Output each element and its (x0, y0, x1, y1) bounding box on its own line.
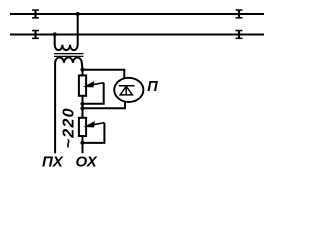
terminal tick left on L2 (32, 30, 39, 39)
potentiometer R1 body (79, 75, 86, 95)
relay U1 diode symbol (119, 86, 135, 95)
potentiometer R2 body (79, 118, 86, 136)
junction dot3 (R2 wiper return) (80, 141, 84, 145)
wire bus line L1 (10, 13, 264, 15)
svg-text:П: П (147, 79, 158, 95)
junction dot on L1 (76, 12, 80, 16)
svg-text:ПХ: ПХ (42, 154, 64, 171)
wire node A down to R1 (82, 70, 84, 76)
svg-text:ОХ: ОХ (76, 154, 98, 171)
wire R2 bottom to OX lead end (82, 136, 84, 153)
transformer T1 primary winding (55, 14, 78, 50)
wire dot2 to relay bottom lead (83, 102, 126, 109)
relay U1 (rectifier device) circle (114, 78, 143, 102)
potentiometer R2 wiper arrow (84, 123, 104, 143)
node A junction dot (80, 68, 84, 72)
potentiometer R1 wiper arrow (84, 83, 104, 104)
junction dot on L2 (53, 32, 57, 36)
transformer T1 core (54, 54, 84, 57)
terminal tick right on L2 (236, 30, 243, 39)
junction dot1 (R1 bottom / wiper return) (80, 102, 84, 106)
junction dot2 (relay return) (80, 106, 84, 110)
svg-text:~220: ~220 (61, 107, 78, 148)
terminal tick right on L1 (236, 9, 243, 18)
wire bus line L2 (10, 34, 264, 36)
terminal tick left on L1 (32, 9, 39, 18)
transformer T1 secondary winding (55, 58, 82, 154)
wire R1 bottom through dots to R2 top (82, 96, 84, 118)
wire node A to relay top lead (83, 70, 125, 79)
